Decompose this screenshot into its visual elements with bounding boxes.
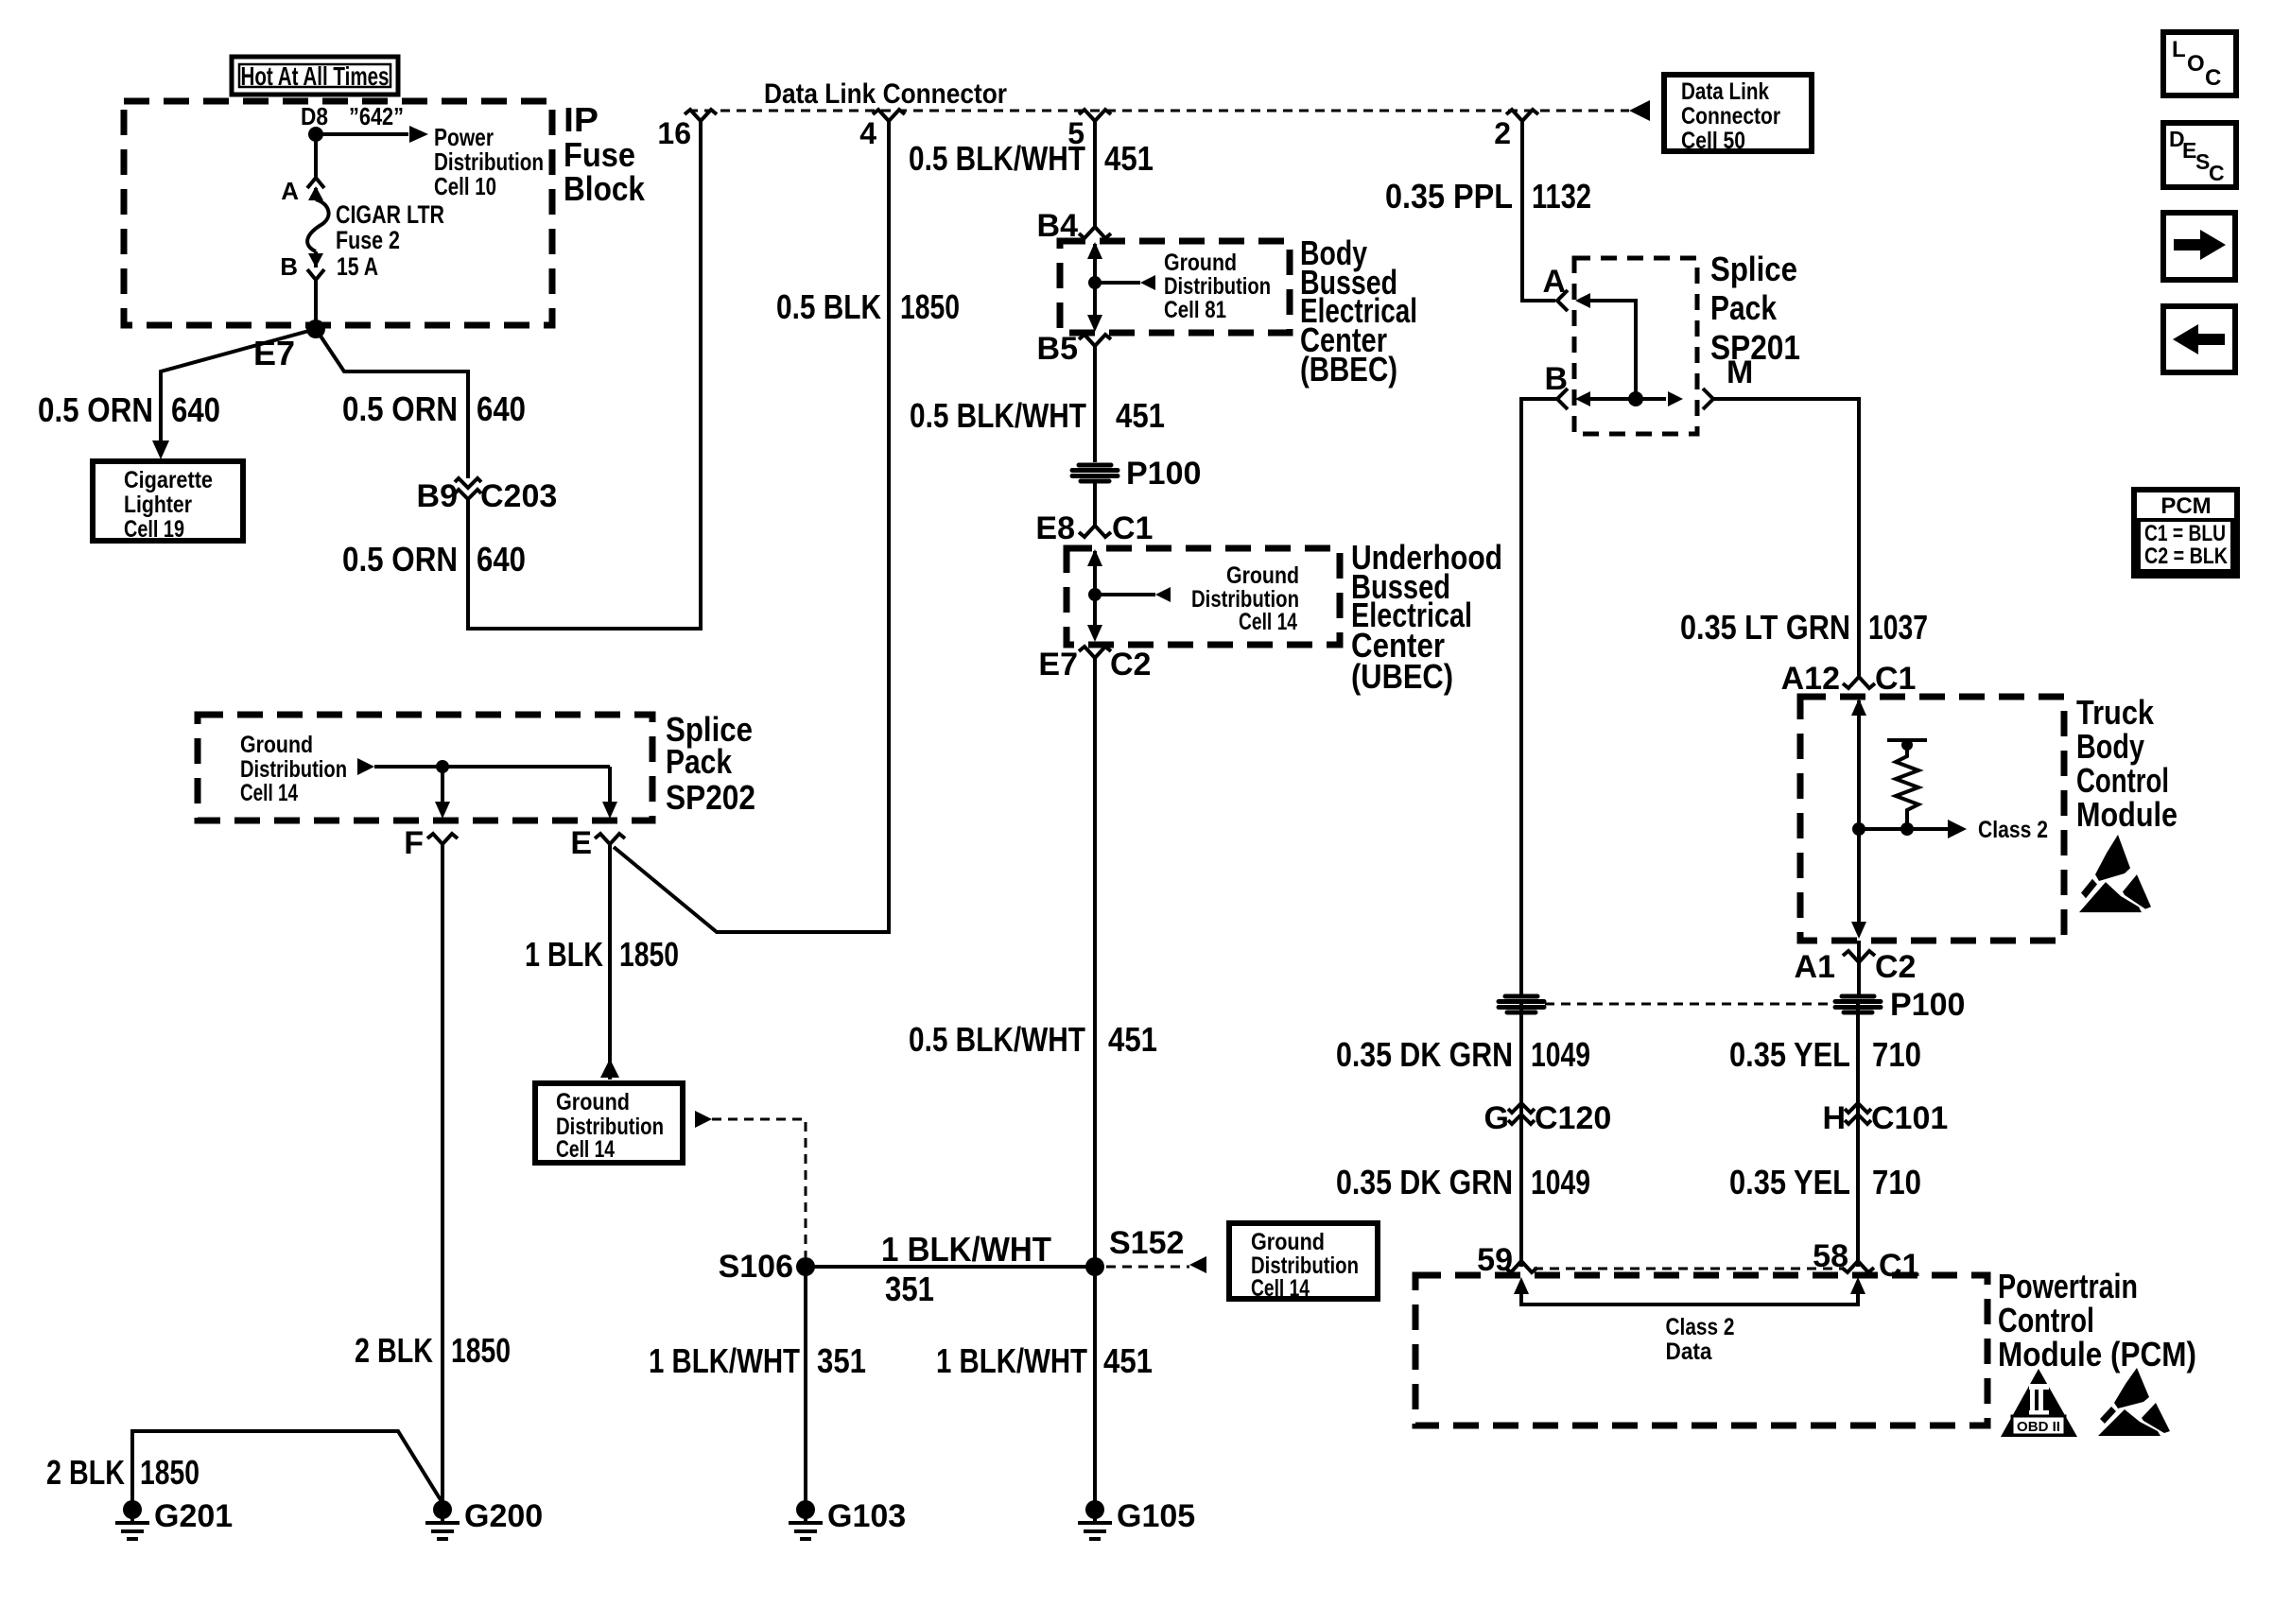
wire label 0.35 YEL 710 (lower) [1729,1163,1921,1201]
SP201 pin M [1668,354,1753,409]
wire fuse B to node E7 [314,280,318,329]
label box Ground Distribution Cell 14 (right) [1229,1223,1378,1302]
svg-text:451: 451 [1103,1341,1153,1380]
wire DLC pin 5 down (circuit 451) [1093,121,1097,227]
svg-text:0.35 YEL: 0.35 YEL [1729,1035,1850,1074]
svg-text:(BBEC): (BBEC) [1300,350,1397,389]
DESC legend box [2163,123,2236,187]
svg-text:Cell 81: Cell 81 [1164,297,1226,323]
svg-text:Fuse: Fuse [564,135,635,174]
resistor (BCM termination) [1887,739,1927,829]
svg-text:C203: C203 [480,478,557,514]
svg-text:2: 2 [1494,116,1511,150]
svg-text:1 BLK/WHT: 1 BLK/WHT [881,1230,1051,1269]
label box Hot At All Times [232,57,398,95]
label box Ground Distribution Cell 14 (left) [535,1083,683,1163]
DLC pin 2 [1494,110,1538,150]
svg-text:1 BLK/WHT: 1 BLK/WHT [649,1341,800,1380]
svg-text:B: B [280,252,298,281]
svg-text:Cell 50: Cell 50 [1681,128,1745,154]
LOC legend box [2163,32,2236,95]
svg-text:0.5 ORN: 0.5 ORN [342,540,458,579]
svg-text:Ground: Ground [1226,562,1299,589]
svg-text:Cell 14: Cell 14 [240,780,298,806]
svg-text:1850: 1850 [900,287,960,326]
label box Data Link Connector Cell 50 [1664,75,1812,154]
ground G103 [789,1498,906,1539]
svg-text:451: 451 [1116,396,1165,435]
svg-text:PCM: PCM [2160,493,2211,519]
svg-text:Cell 14: Cell 14 [556,1136,615,1163]
svg-text:Module (PCM): Module (PCM) [1998,1335,2196,1373]
node resistor bottom [1900,822,1914,836]
svg-text:0.5 BLK/WHT: 0.5 BLK/WHT [910,396,1086,435]
svg-text:A: A [281,177,299,205]
svg-text:Ground: Ground [240,732,313,758]
svg-text:D8: D8 [301,102,328,130]
svg-text:451: 451 [1108,1020,1157,1059]
svg-text:Distribution: Distribution [240,756,347,783]
svg-text:B9: B9 [417,478,458,514]
wire label 0.35 YEL 710 (upper) [1729,1035,1921,1074]
UBEC dashed box [1067,548,1340,645]
SP201 pin B [1544,361,1590,409]
svg-text:G: G [1484,1100,1509,1136]
svg-text:0.5 BLK/WHT: 0.5 BLK/WHT [909,139,1085,178]
svg-text:0.35 DK GRN: 0.35 DK GRN [1336,1163,1513,1201]
SP201 node on B/M row [1628,391,1643,406]
svg-text:0.5 ORN: 0.5 ORN [342,389,458,428]
BBEC title Body Bussed Electrical Center (BBEC) [1300,233,1417,389]
grommet connector P100 (pin5 wire) [1072,456,1201,492]
Data Link Connector dashed face line [688,110,1629,112]
svg-text:E7: E7 [1038,647,1078,682]
svg-text:Control: Control [2076,761,2169,800]
svg-text:1850: 1850 [140,1453,200,1492]
svg-text:C101: C101 [1871,1100,1948,1136]
svg-text:Powertrain: Powertrain [1998,1267,2138,1305]
svg-text:Module: Module [2076,795,2178,834]
svg-text:Cell 10: Cell 10 [434,172,496,200]
Class 2 output arrow (BCM) [1859,817,2048,843]
dashed arrow S152 to Ground Distribution Cell 14 [1106,1256,1206,1273]
svg-text:C2: C2 [1110,647,1151,682]
svg-text:Truck: Truck [2076,693,2155,732]
PCM pin 59 [1477,1242,1537,1278]
SP202 pin F [404,825,458,861]
svg-text:SP202: SP202 [666,778,755,817]
ESD sensitive device symbol (BCM) [2079,835,2151,912]
wire fuse bottom terminal stub [314,251,318,268]
Truck Body Control Module dashed box [1800,693,2178,941]
svg-text:P100: P100 [1126,456,1201,492]
wire DLC pin 2 down to SP201 pin A [1522,121,1555,301]
wire E7/C2 down to splice S152 [1093,658,1097,1267]
connector C1 pin E8 [1035,510,1153,546]
svg-text:OBD II: OBD II [2017,1419,2060,1435]
left arrow legend box [2163,306,2235,372]
connector pin B4 (BBEC) [1037,208,1111,244]
svg-text:Cell 19: Cell 19 [124,516,184,543]
node inside UBEC [1088,588,1102,601]
svg-text:E: E [570,825,592,861]
wire label 0.5 ORN 640 (upper right branch) [342,389,526,428]
ground G200 [425,1498,543,1539]
wire SP201 pin M right and down (to BCM) [1713,399,1859,677]
svg-text:710: 710 [1872,1163,1921,1201]
arrow to Ground Distribution Cell 14 (UBEC) [1095,562,1299,635]
svg-text:C2: C2 [1875,949,1916,985]
DLC pin 5 [1067,110,1111,150]
wire label 2 BLK 1850 (G201) [46,1453,200,1492]
wire label 0.5 BLK/WHT 451 (top) [909,139,1154,178]
SP201 internal B/M row wire [1590,397,1666,401]
svg-text:C1: C1 [1875,661,1916,697]
BBEC dashed box [1060,241,1290,333]
svg-text:L: L [2172,37,2186,62]
svg-text:0.35 PPL: 0.35 PPL [1385,177,1513,216]
connector C2 pin E7 [1038,647,1151,682]
svg-text:1037: 1037 [1868,608,1928,647]
wire B5 down to P100 [1093,346,1097,462]
svg-text:Connector: Connector [1681,103,1780,130]
grommet connector P100 (right) [1835,987,1965,1023]
dashed connector face line 59-58 [1534,1268,1844,1270]
SP202 drop to pin E [602,767,617,819]
svg-text:1132: 1132 [1532,177,1591,216]
wire label 0.35 DK GRN 1049 (upper) [1336,1035,1590,1074]
svg-text:C: C [2209,161,2225,185]
arrow to Ground Distribution Cell 81 [1095,250,1271,323]
svg-text:H: H [1822,1100,1846,1136]
svg-text:Pack: Pack [1710,288,1778,327]
wire label 0.35 LT GRN 1037 [1680,608,1928,647]
svg-text:16: 16 [657,116,691,150]
svg-text:M: M [1726,354,1753,390]
wire label 1 BLK 1850 [525,935,679,974]
connector C120 pin G [1484,1100,1612,1136]
node D8 [301,102,328,142]
svg-text:C2 = BLK: C2 = BLK [2144,544,2229,569]
wire SP201 pin B left and down (to PCM 59) [1521,399,1557,994]
svg-text:Cigarette: Cigarette [124,467,213,493]
svg-text:0.5 BLK: 0.5 BLK [776,287,881,326]
svg-text:Hot At All Times: Hot At All Times [241,61,390,91]
svg-text:15 A: 15 A [337,252,378,281]
svg-text:2 BLK: 2 BLK [46,1453,125,1492]
connector C2 pin A1 (BCM) [1795,949,1917,985]
svg-text:Fuse 2: Fuse 2 [336,226,400,254]
wire label 1 BLK/WHT 451 (G105) [936,1341,1153,1380]
svg-text:Data Link Connector: Data Link Connector [764,78,1007,110]
svg-text:640: 640 [477,540,526,579]
svg-text:1850: 1850 [451,1331,511,1370]
svg-text:0.5 BLK/WHT: 0.5 BLK/WHT [909,1020,1085,1059]
SP202 pin E [570,825,625,861]
wire A1/C2 to P100 (right) [1857,941,1861,994]
ground G201 [115,1498,233,1539]
svg-text:C1: C1 [1112,510,1153,546]
wire label 0.5 BLK/WHT 451 (third) [909,1020,1157,1059]
svg-text:Body: Body [2076,727,2144,766]
svg-text:2 BLK: 2 BLK [355,1331,433,1370]
PCM connector color legend [2134,490,2237,576]
svg-text:Class 2: Class 2 [1978,817,2048,843]
wire D8 to fuse [314,134,318,178]
svg-text:A12: A12 [1781,661,1840,697]
dashed link to splice S106 [695,1111,806,1257]
wire S106 down to ground G103 [804,1267,807,1510]
svg-text:Splice: Splice [1710,250,1797,288]
svg-text:0.5 ORN: 0.5 ORN [38,390,153,429]
svg-text:Lighter: Lighter [124,492,192,518]
wire E7 left branch to cigarette lighter [152,329,316,459]
wire C203 down, right, and up to DLC pin 16 [468,121,701,629]
UBEC internal wire with arrows [1087,549,1102,642]
svg-text:Data Link: Data Link [1681,78,1769,105]
fuse F2 CIGAR LTR 15A, terminals A and B [280,177,444,281]
DLC pin 16 [657,110,717,150]
wire label 0.5 ORN 640 (left) [38,390,220,429]
right arrow legend box [2163,213,2235,280]
wire label 2 BLK 1850 (F wire) [355,1331,511,1370]
svg-text:C: C [2205,65,2221,91]
node BCM wire junction [1852,822,1865,836]
svg-text:351: 351 [885,1270,934,1308]
svg-text:SP201: SP201 [1710,328,1800,367]
connector C101 pin H [1822,1100,1948,1136]
svg-text:1 BLK/WHT: 1 BLK/WHT [936,1341,1087,1380]
dashed bulkhead line between P100s [1545,1003,1834,1006]
wire label 0.35 DK GRN 1049 (lower) [1336,1163,1590,1201]
svg-text:G201: G201 [154,1498,233,1534]
svg-text:A1: A1 [1795,949,1835,985]
svg-text:1850: 1850 [619,935,679,974]
svg-text:640: 640 [477,389,526,428]
splice S152 [1085,1225,1184,1276]
svg-text:Data: Data [1666,1339,1713,1365]
svg-text:0.35 YEL: 0.35 YEL [1729,1163,1850,1201]
svg-text:G105: G105 [1117,1498,1195,1534]
OBD II symbol [2001,1369,2077,1437]
connector C203 pin B9 [417,478,558,514]
grommet connector P100 (left) [1499,996,1544,1012]
wire P100 left down to connector C120 [1519,1004,1523,1267]
node inside SP202 [436,760,449,773]
connector C1 pin A12 (BCM) [1781,661,1917,697]
splice S106 [719,1249,815,1285]
svg-text:Block: Block [564,169,646,208]
wire SP202 pin E down to Ground Distribution Cell 14 arrow [600,844,619,1080]
wire S106 to S152 [806,1265,1095,1269]
svg-text:S106: S106 [719,1249,793,1285]
wire label 0.35 PPL 1132 [1385,177,1591,216]
Splice Pack SP201 dashed box [1574,250,1800,434]
BCM internal wire with entry/exit arrows [1851,699,1866,939]
wire D8 to Power Distribution arrow, label "642" [316,102,544,200]
ground G105 [1078,1498,1195,1539]
svg-text:Cell 14: Cell 14 [1251,1275,1310,1302]
svg-text:Distribution: Distribution [1164,273,1271,300]
wire label 0.5 BLK/WHT 451 (second) [910,396,1165,435]
svg-text:”642”: ”642” [349,102,404,130]
svg-text:(UBEC): (UBEC) [1351,657,1453,696]
svg-text:351: 351 [817,1341,866,1380]
wire label 0.5 BLK 1850 [776,287,960,326]
DLC pin 4 [859,110,905,150]
wire SP202 pin F down to ground G200 [441,844,444,1510]
component box Cigarette Lighter Cell 19 [93,461,243,543]
svg-text:1049: 1049 [1531,1163,1590,1201]
svg-text:CIGAR LTR: CIGAR LTR [336,200,444,229]
svg-text:S152: S152 [1109,1225,1184,1261]
node E7 [253,320,325,372]
Splice Pack SP202 dashed box [198,710,755,821]
wire label 1 BLK/WHT 351 (horizontal) [881,1230,1051,1308]
connector pin B5 (BBEC) [1037,331,1111,367]
svg-text:0.35 LT GRN: 0.35 LT GRN [1680,608,1850,647]
wire P100 right down to connector C101 [1856,1004,1860,1267]
svg-text:G200: G200 [464,1498,543,1534]
node inside BBEC [1088,276,1102,289]
wire label 0.5 ORN 640 (lower) [342,540,526,579]
SP201 pin A [1542,264,1590,311]
svg-text:Ground: Ground [556,1089,630,1115]
IP Fuse Block dashed box [124,100,646,325]
ESD sensitive device symbol (PCM) [2098,1368,2170,1436]
svg-text:Pack: Pack [666,742,733,781]
wire P100 to connector C1 pin E8 [1093,483,1097,526]
svg-text:C120: C120 [1535,1100,1611,1136]
svg-text:F: F [404,825,424,861]
svg-text:Class 2: Class 2 [1666,1314,1735,1340]
svg-text:IP: IP [564,100,599,139]
svg-text:710: 710 [1872,1035,1921,1074]
svg-text:0.35 DK GRN: 0.35 DK GRN [1336,1035,1513,1074]
wire fuse top terminal stub [314,188,318,199]
svg-text:640: 640 [171,390,220,429]
wire E7 right branch down to connector C203 [316,329,468,478]
svg-text:G103: G103 [827,1498,906,1534]
wire S152 down to ground G105 [1093,1267,1097,1510]
svg-text:E8: E8 [1035,510,1075,546]
PCM pin 58, connector C1 [1813,1238,1919,1284]
svg-text:451: 451 [1104,139,1154,178]
wire label 1 BLK/WHT 351 (G103) [649,1341,866,1380]
Powertrain Control Module dashed box [1415,1267,2196,1425]
svg-text:C1 = BLU: C1 = BLU [2144,521,2226,546]
UBEC title Underhood Bussed Electrical Center (UBEC) [1351,538,1502,696]
svg-text:1049: 1049 [1531,1035,1590,1074]
wire G201 branch [132,1431,442,1510]
SP201 internal wire A to B/M row [1590,301,1636,399]
Ground Distribution Cell 14 feed into SP202 [240,732,610,806]
wire DLC pin 4 down to splice pack SP202 pin E [614,121,889,932]
svg-text:Cell 14: Cell 14 [1239,609,1297,635]
svg-text:4: 4 [859,116,876,150]
svg-text:P100: P100 [1890,987,1965,1023]
svg-text:Ground: Ground [1164,250,1237,276]
svg-text:B5: B5 [1037,331,1078,367]
BBEC internal wire with arrows [1087,242,1102,332]
PCM internal Class 2 Data bus wire [1514,1277,1865,1365]
arrow to Data Link Connector Cell 50 [1629,100,1650,121]
SP202 drop to pin F [435,767,450,819]
svg-text:1 BLK: 1 BLK [525,935,603,974]
svg-text:Control: Control [1998,1301,2094,1339]
svg-text:Ground: Ground [1251,1229,1325,1255]
svg-text:O: O [2187,51,2205,77]
